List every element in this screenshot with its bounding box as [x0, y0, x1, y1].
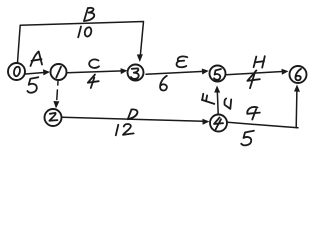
- label E: [177, 56, 188, 67]
- label 4 duration H: [247, 70, 259, 88]
- edge H arrowhead: [282, 69, 289, 75]
- edge C arrowhead: [121, 68, 128, 74]
- label 5 duration G: [241, 131, 254, 146]
- edge E arrowhead: [202, 69, 209, 75]
- edge G arrowhead: [294, 85, 300, 92]
- node 2: [45, 109, 62, 126]
- label 6 duration E: [160, 76, 167, 91]
- edge E wire: [146, 71, 204, 74]
- label 2 duration F rotated: [224, 99, 231, 109]
- edge F wire: [216, 91, 219, 115]
- label F rotated: [202, 94, 214, 104]
- node 5: [210, 66, 226, 82]
- dummy arrow 1 to 2 dashed: [57, 82, 59, 86]
- edge F arrowhead: [214, 86, 220, 93]
- edge H wire: [226, 72, 283, 75]
- dummy dash 2: [56, 90, 59, 100]
- node 6: [290, 66, 307, 83]
- edge A arrowhead: [43, 69, 50, 75]
- label 12: [116, 124, 134, 135]
- edge G vertical wire: [295, 90, 298, 128]
- label D: [128, 109, 138, 119]
- label B: [84, 8, 94, 21]
- label H: [254, 56, 265, 67]
- edge B arrowhead: [137, 54, 143, 62]
- edge G wire: [228, 122, 299, 128]
- edge D wire: [63, 117, 204, 121]
- label C: [89, 59, 99, 67]
- label 10: [78, 27, 91, 38]
- node 4: [210, 115, 227, 132]
- edge B wire: [18, 22, 144, 63]
- edge C wire: [67, 71, 123, 73]
- label A: [31, 52, 43, 67]
- label G: [247, 107, 260, 120]
- edge D arrowhead: [202, 119, 209, 125]
- node 3: [128, 65, 144, 81]
- edge A wire: [26, 72, 46, 74]
- label 5 duration A: [27, 77, 38, 92]
- node 1: [51, 64, 67, 80]
- label 4 duration C: [88, 75, 99, 89]
- node 0: [8, 63, 25, 80]
- dummy arrowhead: [53, 101, 59, 109]
